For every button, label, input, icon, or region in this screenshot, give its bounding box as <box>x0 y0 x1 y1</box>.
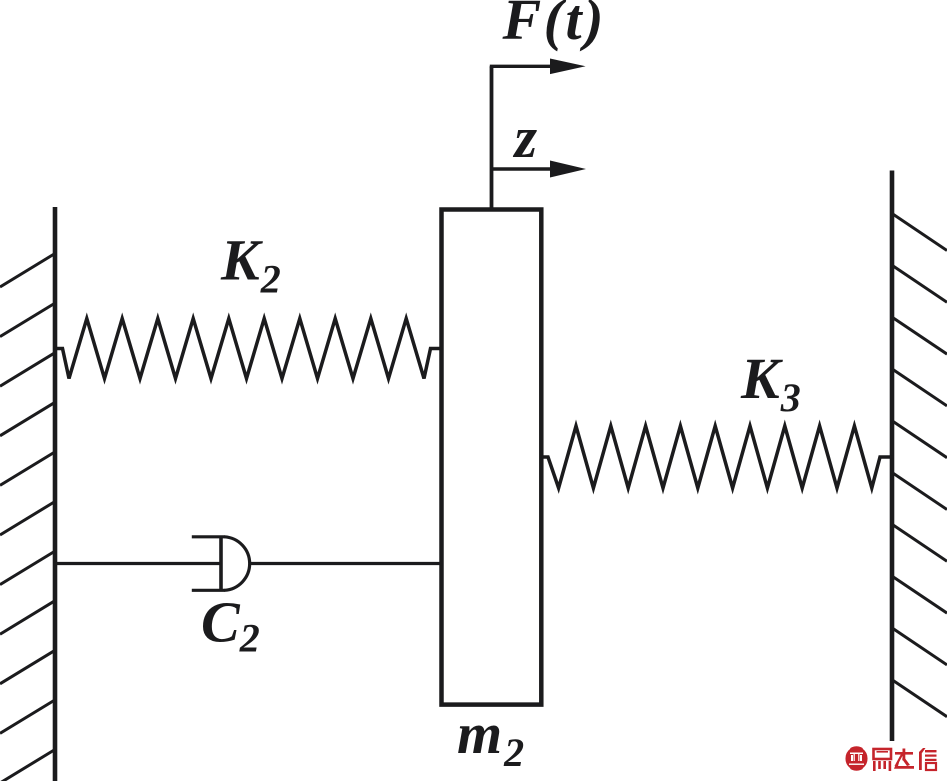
displacement arrow z shaft <box>492 167 553 170</box>
displacement arrow z head <box>550 161 586 178</box>
watermark text 鼎达信 <box>873 748 937 771</box>
label K2 <box>220 228 281 302</box>
damper C2 piston plate <box>219 536 223 592</box>
watermark logo circle <box>844 746 868 770</box>
right wall hatching <box>892 214 947 717</box>
damper C2 bottom flange <box>192 589 225 592</box>
label m2 <box>457 701 524 775</box>
label z <box>513 105 538 170</box>
damper C2 cylinder arc <box>225 537 250 591</box>
label F(t) <box>502 0 606 52</box>
svg-text:F(t): F(t) <box>502 0 606 52</box>
svg-text:K2: K2 <box>220 228 281 302</box>
force arrow F(t) shaft <box>490 65 552 68</box>
force arrow F(t) head <box>550 59 586 75</box>
damper C2 top flange <box>192 535 225 538</box>
damper C2 left rod <box>55 562 221 565</box>
svg-text:K3: K3 <box>740 346 801 420</box>
label K3 <box>740 346 801 420</box>
svg-text:m2: m2 <box>457 701 524 775</box>
spring K2 <box>55 319 442 379</box>
label C2 <box>201 590 260 661</box>
mass m2 rectangle <box>442 210 542 705</box>
svg-text:z: z <box>513 105 538 170</box>
left wall <box>53 207 58 781</box>
right wall <box>890 171 895 742</box>
force rod (vertical wire from mass top) <box>490 66 494 209</box>
svg-text:C2: C2 <box>201 590 260 661</box>
spring K3 <box>541 426 893 488</box>
damper C2 right rod <box>251 562 442 565</box>
left wall hatching <box>0 254 55 781</box>
